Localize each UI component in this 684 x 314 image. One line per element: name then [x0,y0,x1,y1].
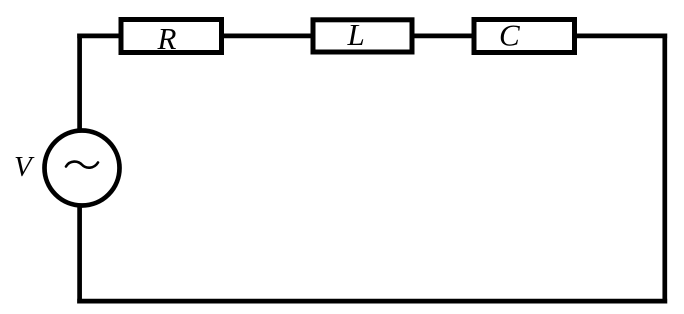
svg-text:C: C [499,18,520,53]
svg-text:V: V [14,151,35,183]
resistor R (rectangular box body) [121,20,222,53]
svg-text:R: R [157,21,177,56]
wire: top run from top-left corner through R, L, C to top-right corner [77,34,667,39]
AC source sine-wave symbol [66,162,98,168]
inductor L (rectangular box body) [313,20,412,52]
capacitor C (rectangular box body) [474,20,575,53]
wire: left riser from source V bottom terminal down to bottom-left corner [77,207,82,304]
wire: bottom return run from bottom-right corner to bottom-left corner [77,299,667,304]
svg-text:L: L [347,17,365,52]
AC voltage source V (circle body) [45,131,120,206]
wire: right drop from top-right corner down to bottom-right corner [662,34,667,304]
wire: left riser from source V top terminal up to top-left corner [77,34,82,130]
